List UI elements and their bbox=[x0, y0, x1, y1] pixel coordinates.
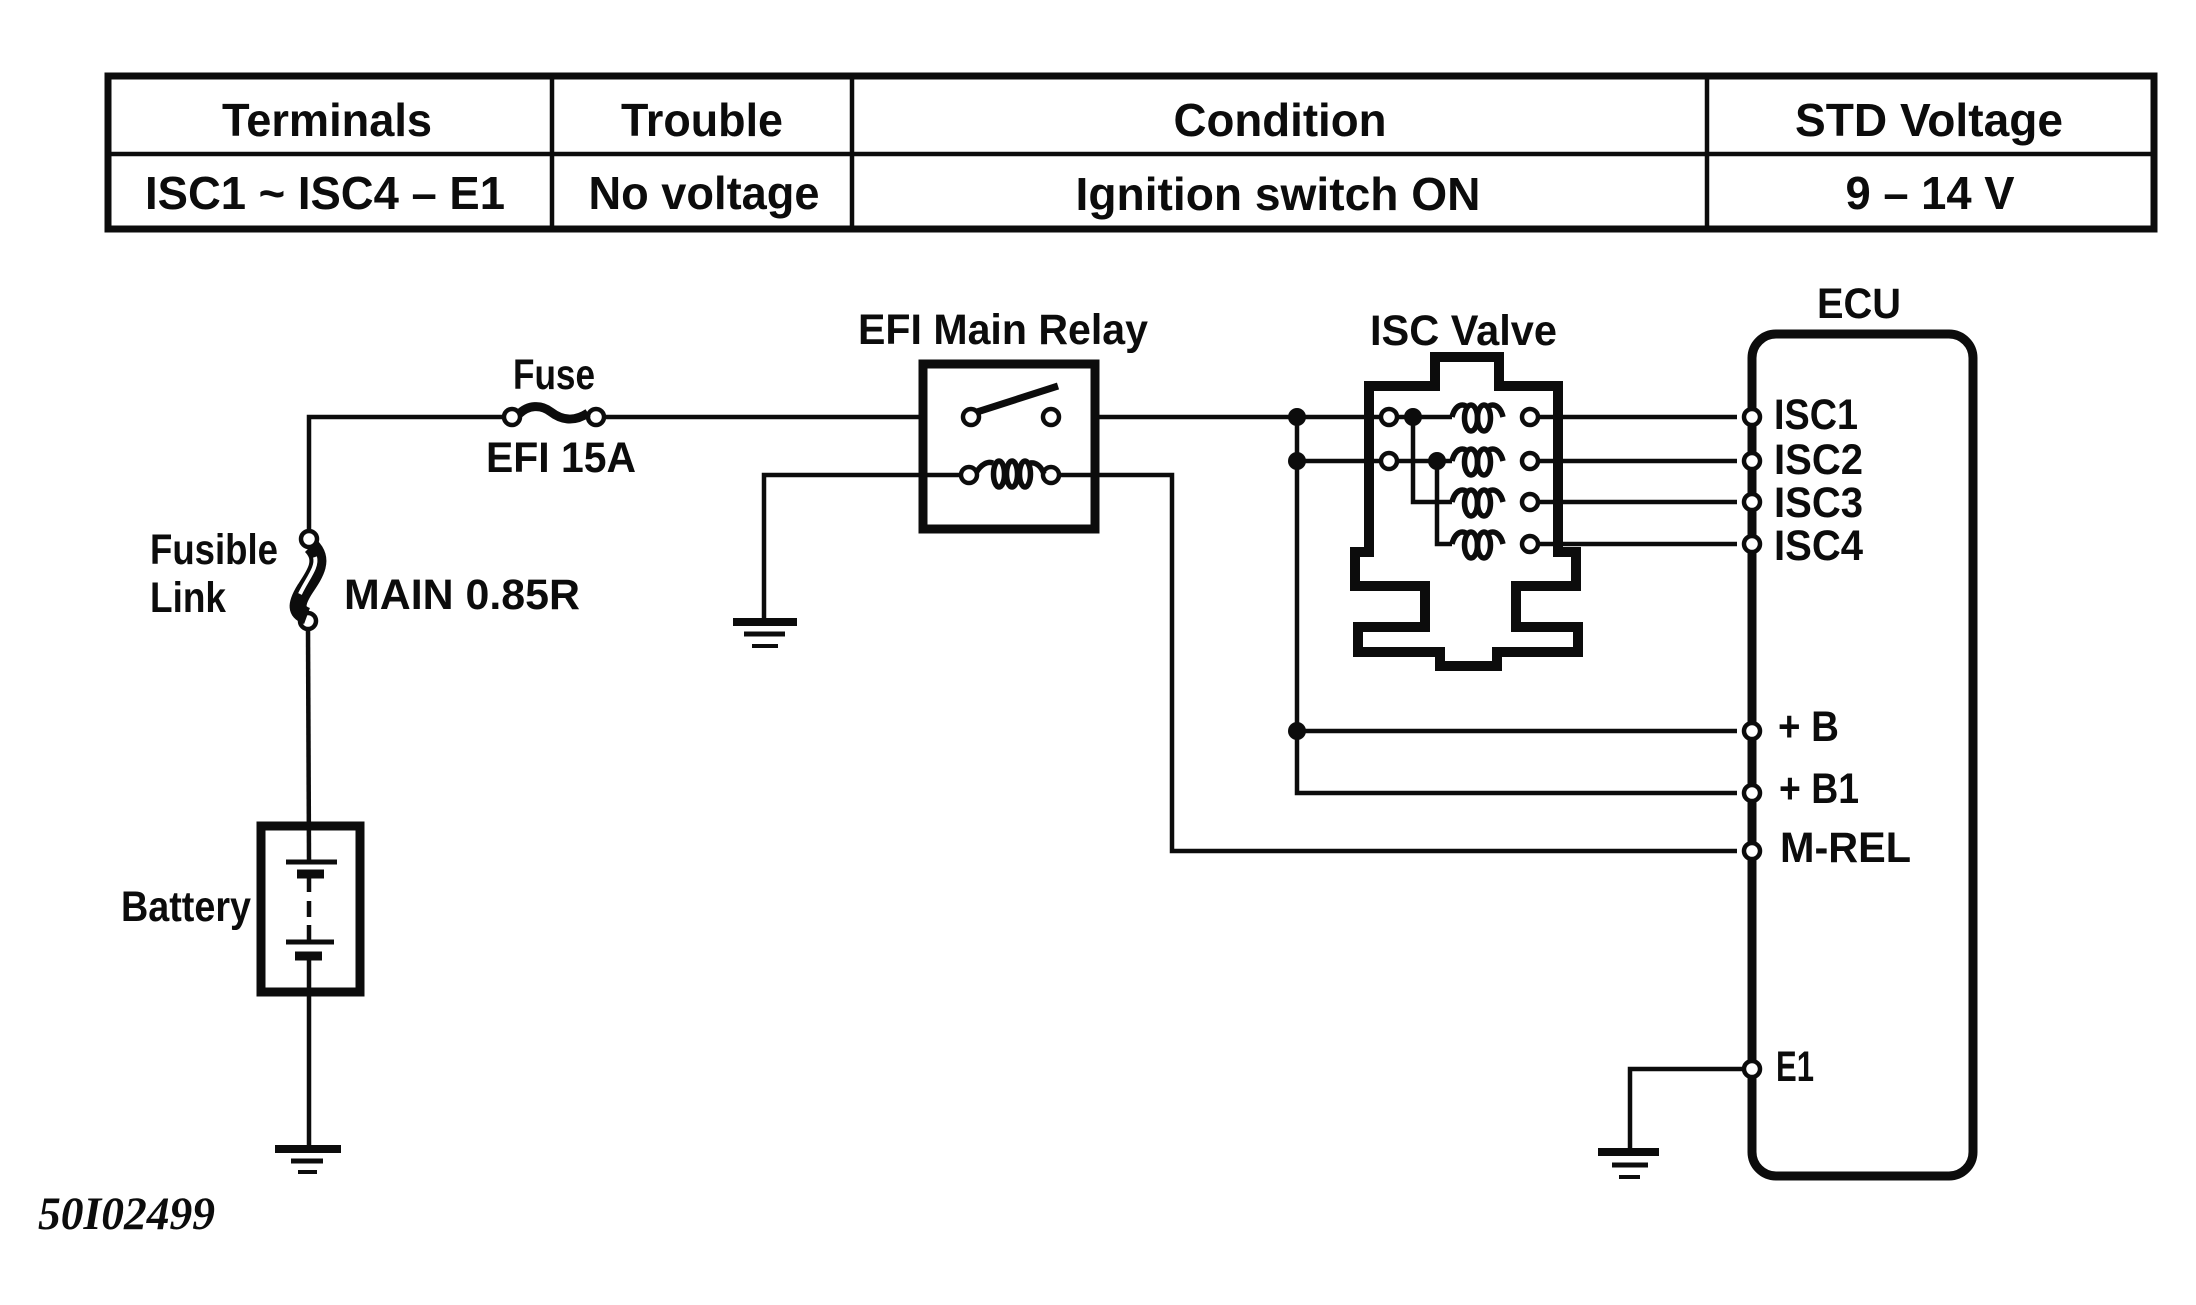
junction row1 to row3 feeder bbox=[1404, 408, 1422, 426]
pin ISC1 bbox=[1744, 409, 1760, 425]
svg-text:No voltage: No voltage bbox=[589, 167, 820, 219]
battery bbox=[261, 826, 360, 992]
wire coil1 to ECU ISC1 bbox=[1538, 415, 1737, 420]
svg-text:Trouble: Trouble bbox=[621, 94, 783, 146]
svg-text:ISC1 ~ ISC4 – E1: ISC1 ~ ISC4 – E1 bbox=[145, 167, 505, 219]
wire relay coil to M-REL pin bbox=[1059, 475, 1737, 851]
ISC valve coil 3 bbox=[1452, 490, 1538, 516]
pin M-REL bbox=[1744, 843, 1760, 859]
svg-text:Fuse: Fuse bbox=[513, 351, 595, 399]
svg-text:+ B1: + B1 bbox=[1779, 765, 1859, 813]
svg-text:ISC Valve: ISC Valve bbox=[1370, 307, 1557, 355]
svg-text:ISC3: ISC3 bbox=[1774, 479, 1863, 527]
svg-text:MAIN 0.85R: MAIN 0.85R bbox=[344, 571, 580, 619]
ISC valve coil 1 bbox=[1381, 405, 1538, 431]
pin +B1 bbox=[1744, 785, 1760, 801]
svg-text:ECU: ECU bbox=[1817, 280, 1901, 328]
ground battery bbox=[275, 1149, 341, 1172]
svg-text:9 – 14 V: 9 – 14 V bbox=[1846, 167, 2015, 219]
ground E1 bbox=[1598, 1152, 1659, 1177]
svg-text:Fusible: Fusible bbox=[150, 526, 278, 574]
junction main feed bbox=[1288, 408, 1306, 426]
wire feeder down to +B1 bbox=[1297, 417, 1737, 793]
wire feeder row2 to row4 bbox=[1437, 461, 1452, 544]
EFI main relay box bbox=[923, 364, 1095, 529]
ground relay coil bbox=[733, 622, 797, 646]
junction row2 to row4 feeder bbox=[1428, 452, 1446, 470]
pin +B bbox=[1744, 723, 1760, 739]
svg-text:EFI 15A: EFI 15A bbox=[486, 434, 636, 482]
svg-text:Link: Link bbox=[150, 574, 226, 622]
svg-text:ISC2: ISC2 bbox=[1774, 436, 1863, 484]
wire E1 to ground bbox=[1630, 1069, 1744, 1149]
ECU box bbox=[1752, 334, 1973, 1176]
svg-text:+ B: + B bbox=[1778, 703, 1839, 751]
svg-text:50I02499: 50I02499 bbox=[38, 1188, 215, 1240]
svg-text:Battery: Battery bbox=[121, 883, 251, 931]
relay coil bbox=[961, 461, 1059, 487]
ISC valve coil 2 bbox=[1381, 449, 1538, 475]
wire relay switch to ISC valve / node ISC1 feed bbox=[1095, 415, 1381, 420]
wire coil3 to ECU ISC3 bbox=[1538, 500, 1737, 505]
svg-text:ISC1: ISC1 bbox=[1774, 391, 1858, 439]
junction ISC2 branch bbox=[1288, 452, 1306, 470]
pin E1 bbox=[1744, 1061, 1760, 1077]
svg-text:E1: E1 bbox=[1776, 1043, 1814, 1091]
wire coil2 to ECU ISC2 bbox=[1538, 459, 1737, 464]
svg-text:Terminals: Terminals bbox=[222, 94, 432, 146]
wire row1 dot to coil1 bbox=[1397, 415, 1452, 420]
wire relay coil to ground bbox=[764, 475, 961, 618]
wire branch to ISC2 coil bbox=[1297, 459, 1381, 464]
table frame bbox=[108, 76, 2154, 229]
svg-text:M-REL: M-REL bbox=[1780, 824, 1911, 872]
svg-text:STD Voltage: STD Voltage bbox=[1795, 94, 2063, 146]
ISC valve coil 4 bbox=[1452, 532, 1538, 558]
wire feeder row1 to row3 bbox=[1413, 417, 1452, 502]
relay switch contacts bbox=[963, 386, 1059, 425]
wire fusible link to battery bbox=[308, 629, 309, 860]
junction +B branch bbox=[1288, 722, 1306, 740]
fusible link bbox=[298, 531, 318, 629]
fuse F EFI 15A bbox=[504, 407, 604, 425]
svg-text:Ignition switch ON: Ignition switch ON bbox=[1076, 168, 1481, 220]
pin ISC3 bbox=[1744, 494, 1760, 510]
ISC valve body bbox=[1355, 357, 1578, 666]
wire battery- to ground bbox=[307, 992, 312, 1146]
pin ISC2 bbox=[1744, 453, 1760, 469]
svg-text:EFI Main Relay: EFI Main Relay bbox=[858, 306, 1148, 354]
pin ISC4 bbox=[1744, 536, 1760, 552]
svg-text:ISC4: ISC4 bbox=[1774, 522, 1863, 570]
wire row2 dot to coil2 bbox=[1397, 459, 1452, 464]
svg-text:Condition: Condition bbox=[1174, 94, 1387, 146]
wire battery+ to fuse to relay (node B+) bbox=[309, 417, 923, 533]
wire coil4 to ECU ISC4 bbox=[1538, 542, 1737, 547]
wire branch to +B pin bbox=[1297, 729, 1737, 734]
